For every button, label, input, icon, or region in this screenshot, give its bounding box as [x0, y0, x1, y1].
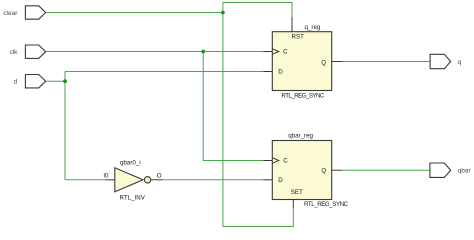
svg-text:q: q	[458, 59, 462, 66]
svg-text:RTL_INV: RTL_INV	[120, 194, 146, 201]
svg-text:Q: Q	[321, 59, 326, 66]
svg-text:d: d	[14, 79, 18, 86]
svg-text:D: D	[278, 69, 283, 76]
svg-text:qbar0_i: qbar0_i	[120, 160, 141, 167]
svg-text:qbar: qbar	[458, 168, 472, 175]
svg-text:q_reg: q_reg	[305, 24, 321, 31]
svg-text:qbar_reg: qbar_reg	[288, 132, 313, 139]
svg-text:I0: I0	[103, 172, 109, 179]
svg-text:clk: clk	[9, 49, 18, 56]
svg-text:clear: clear	[3, 10, 18, 17]
svg-text:SET: SET	[291, 189, 303, 196]
svg-text:RTL_REG_SYNC: RTL_REG_SYNC	[304, 201, 349, 208]
svg-text:Q: Q	[321, 167, 326, 174]
svg-text:D: D	[278, 177, 283, 184]
svg-text:C: C	[283, 158, 288, 165]
svg-text:O: O	[157, 172, 162, 179]
svg-text:RTL_REG_SYNC: RTL_REG_SYNC	[281, 93, 325, 100]
svg-text:C: C	[283, 49, 288, 56]
svg-text:RST: RST	[292, 34, 305, 41]
